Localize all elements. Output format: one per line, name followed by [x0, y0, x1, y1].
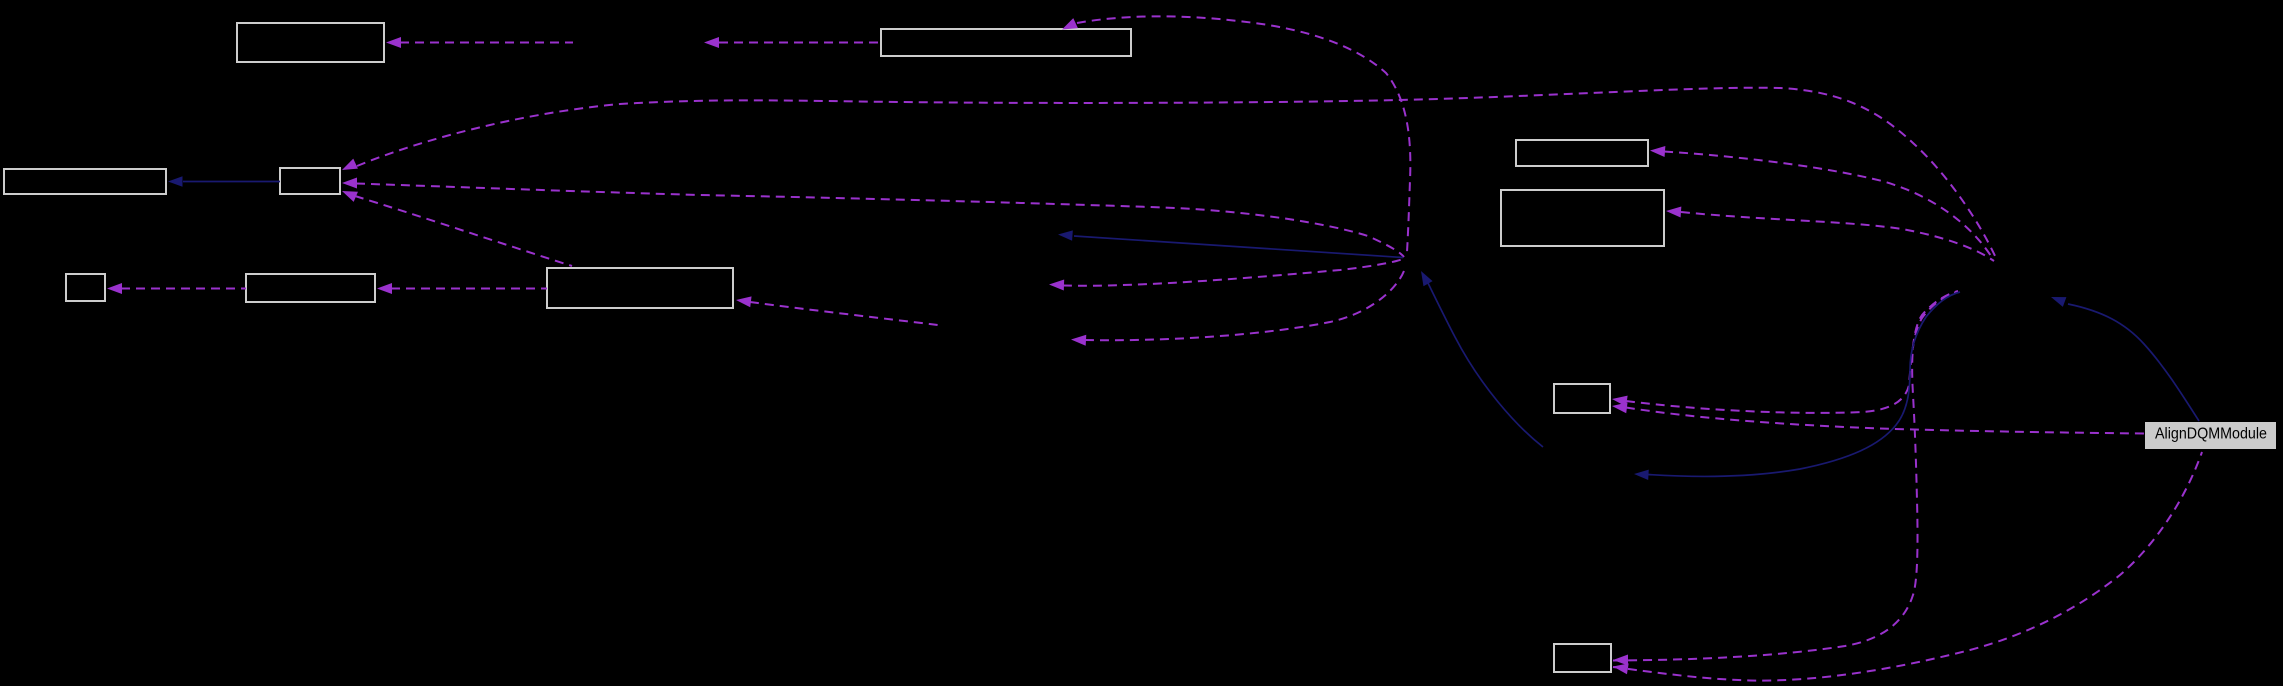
edge E7 B6 to B7 — [391, 288, 547, 290]
edge E8 B7 to B5 — [121, 288, 246, 290]
edge E12 node R to B8 — [1664, 152, 1991, 257]
solid blue edges — [183, 182, 2199, 477]
edge E6 B6 to B4 lower — [355, 196, 572, 266]
edge BL3 node C to left — [1074, 236, 1403, 258]
arrow BL5 — [2049, 292, 2066, 307]
edge E11 node C to left arrow2 — [1085, 268, 1405, 340]
node box B9 (right tall) — [1501, 190, 1664, 246]
node box B6 (center) — [547, 268, 733, 308]
edge E5 node C to B4 middle — [356, 184, 1404, 258]
arrow E2 at invisible node — [704, 37, 719, 48]
arrow BL1 at B3 — [168, 176, 183, 186]
arrow E11 — [1071, 334, 1087, 346]
node box B1 (top-left) — [237, 23, 384, 62]
edge E17 Align to B11 — [1613, 452, 2202, 681]
arrow E15 at B10 upper — [1611, 394, 1627, 407]
svg-text:AlignDQMModule: AlignDQMModule — [2155, 426, 2267, 443]
arrow E16 at B11 upper — [1613, 655, 1628, 666]
edge E2 from B2 left — [719, 42, 881, 44]
edge E14 Align to B10 horizontal — [1626, 408, 2145, 434]
edge E10 node C to left arrow1 — [1063, 259, 1403, 286]
edge E15 node R to B10 — [1626, 292, 1957, 413]
node box B11 (bottom small) — [1554, 644, 1611, 672]
edge E1 into B1 — [400, 42, 573, 44]
arrow E1 at B1 — [386, 37, 401, 48]
edge E16 node R to B11 — [1613, 291, 1958, 661]
arrow E8 at B5 — [107, 283, 122, 294]
node box B4 (small center-left) — [280, 168, 340, 194]
node box B10 (right small mid) — [1554, 384, 1610, 413]
edge BL1 B4 to B3 — [183, 181, 280, 183]
arrow E3 at B2 top — [1060, 18, 1078, 34]
arrow E9 at B6 right — [735, 295, 751, 308]
node box B8 (right small) — [1516, 140, 1648, 166]
edge E13 node R to B9 — [1681, 212, 1994, 261]
node AlignDQMModule — [2145, 422, 2276, 449]
arrow E5 at B4 middle — [342, 178, 357, 189]
edge BL4 node R to D arrow — [1648, 292, 1960, 476]
arrow BL3 — [1058, 229, 1073, 240]
arrow BL2 at node C — [1416, 268, 1432, 286]
arrow E7 at B7 — [377, 283, 392, 294]
blue arrowheads — [168, 176, 2066, 480]
node box B7 (mid-left) — [246, 274, 375, 302]
arrow E10 — [1049, 279, 1064, 291]
edge BL2 D to node C — [1426, 279, 1543, 447]
arrow E17 at B11 lower — [1612, 661, 1629, 674]
edge E4 node R to B4 upper — [357, 88, 1996, 258]
arrow E13 at B9 — [1666, 206, 1682, 218]
node box B5 (small left) — [66, 274, 105, 301]
arrow BL4 — [1634, 469, 1649, 480]
node box B2 (top wide) — [881, 29, 1131, 56]
edge E9 into B6 right — [750, 302, 938, 325]
arrow E4 at B4 upper — [340, 159, 358, 175]
arrow E12 at B8 — [1650, 145, 1666, 157]
dashed arrowheads — [107, 18, 1681, 674]
edge BL5 Align to node R — [2068, 304, 2199, 421]
arrow E6 at B4 lower — [340, 186, 358, 202]
node box B3 (left long) — [4, 169, 166, 194]
arrow E14 at B10 lower — [1611, 401, 1627, 414]
edge E3 arc node C to B2 top — [1077, 16, 1410, 252]
